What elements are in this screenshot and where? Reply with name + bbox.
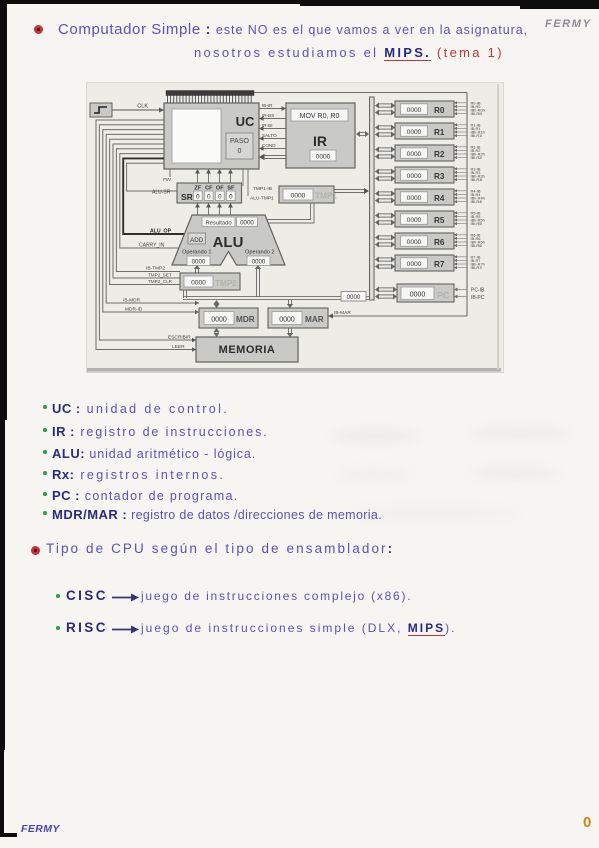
svg-text:IBl-R2l: IBl-R2l — [471, 155, 483, 160]
svg-text:0000: 0000 — [192, 259, 206, 266]
svg-text:0000: 0000 — [407, 173, 422, 180]
svg-text:ALU-SR: ALU-SR — [152, 190, 171, 196]
svg-text:Operando 1: Operando 1 — [182, 250, 212, 256]
svg-text:UC: UC — [236, 114, 255, 129]
svg-text:TMP2_SET: TMP2_SET — [148, 273, 172, 278]
svg-text:R5: R5 — [434, 216, 445, 225]
svg-text:PASO: PASO — [230, 138, 249, 145]
svg-text:MEMORIA: MEMORIA — [219, 344, 276, 356]
svg-text:0: 0 — [238, 148, 242, 155]
svg-text:0000: 0000 — [410, 292, 426, 299]
svg-text:ALU: ALU — [213, 234, 244, 251]
svg-text:IR: IR — [313, 133, 327, 149]
svg-text:0000: 0000 — [407, 151, 422, 158]
svg-text:MAR: MAR — [305, 315, 324, 324]
svg-text:LEER: LEER — [172, 344, 185, 350]
svg-text:IBl-R0l: IBl-R0l — [471, 111, 483, 116]
svg-text:IB-MAR: IB-MAR — [334, 310, 351, 316]
svg-text:0: 0 — [218, 194, 222, 201]
svg-text:0000: 0000 — [211, 317, 227, 324]
svg-text:0000: 0000 — [407, 195, 422, 202]
svg-text:IBl-R1l: IBl-R1l — [471, 133, 483, 138]
svg-text:TMP2_CLR: TMP2_CLR — [148, 279, 173, 284]
svg-text:0000: 0000 — [191, 280, 206, 287]
svg-text:0000: 0000 — [407, 107, 422, 114]
svg-text:ESCRIBIR: ESCRIBIR — [168, 335, 191, 341]
svg-text:TMP1: TMP1 — [315, 192, 337, 201]
svg-text:R2: R2 — [434, 150, 445, 159]
svg-text:R0: R0 — [434, 106, 445, 115]
svg-text:0000: 0000 — [279, 317, 295, 324]
svg-text:IR-BI: IR-BI — [262, 123, 272, 128]
svg-text:0000: 0000 — [407, 217, 422, 224]
svg-text:ALU-TMP1: ALU-TMP1 — [250, 196, 274, 202]
svg-text:MDR: MDR — [236, 315, 255, 324]
svg-text:ALU_OP: ALU_OP — [150, 229, 172, 235]
svg-text:Operando 2: Operando 2 — [245, 250, 275, 256]
svg-text:0: 0 — [229, 194, 233, 201]
svg-text:SALTO: SALTO — [262, 133, 277, 138]
svg-text:SR: SR — [181, 192, 193, 202]
svg-text:MOV R0, R0: MOV R0, R0 — [300, 113, 340, 120]
svg-text:IBl-R5l: IBl-R5l — [471, 221, 483, 226]
svg-text:IBl-R7l: IBl-R7l — [471, 265, 483, 270]
svg-text:0000: 0000 — [407, 239, 422, 246]
svg-text:IBl-R4l: IBl-R4l — [471, 199, 483, 204]
svg-text:0000: 0000 — [407, 129, 422, 136]
svg-text:PC-IB: PC-IB — [471, 288, 485, 294]
svg-text:FIN: FIN — [163, 177, 171, 183]
svg-text:0000: 0000 — [407, 261, 422, 268]
svg-text:0: 0 — [196, 194, 200, 201]
svg-text:0000: 0000 — [291, 193, 306, 200]
svg-text:IB-PC: IB-PC — [471, 295, 485, 301]
svg-text:TMP1-IB: TMP1-IB — [253, 186, 272, 192]
svg-text:CLK: CLK — [137, 104, 148, 110]
svg-text:0000: 0000 — [347, 294, 361, 301]
svg-text:IBl-R3l: IBl-R3l — [471, 177, 483, 182]
svg-text:IB-IR: IB-IR — [262, 103, 273, 108]
svg-text:0: 0 — [207, 194, 211, 201]
svg-text:0000: 0000 — [252, 259, 266, 266]
svg-text:R7: R7 — [434, 260, 445, 269]
svg-text:0000: 0000 — [240, 220, 254, 227]
svg-text:IBl-R6l: IBl-R6l — [471, 243, 483, 248]
svg-text:R1: R1 — [434, 128, 445, 137]
svg-text:0000: 0000 — [316, 154, 331, 161]
svg-text:Resultado: Resultado — [205, 221, 231, 227]
svg-text:R3: R3 — [434, 172, 445, 181]
svg-text:PC: PC — [437, 291, 450, 301]
svg-text:TMP2: TMP2 — [215, 279, 237, 288]
svg-text:CARRY_IN: CARRY_IN — [139, 243, 165, 249]
svg-text:ADD: ADD — [190, 237, 204, 244]
svg-text:IB-TMP2: IB-TMP2 — [146, 266, 165, 272]
svg-text:R4: R4 — [434, 194, 445, 203]
svg-text:R6: R6 — [434, 238, 445, 247]
svg-text:IR-BS: IR-BS — [262, 113, 274, 118]
svg-text:COND: COND — [262, 143, 276, 148]
